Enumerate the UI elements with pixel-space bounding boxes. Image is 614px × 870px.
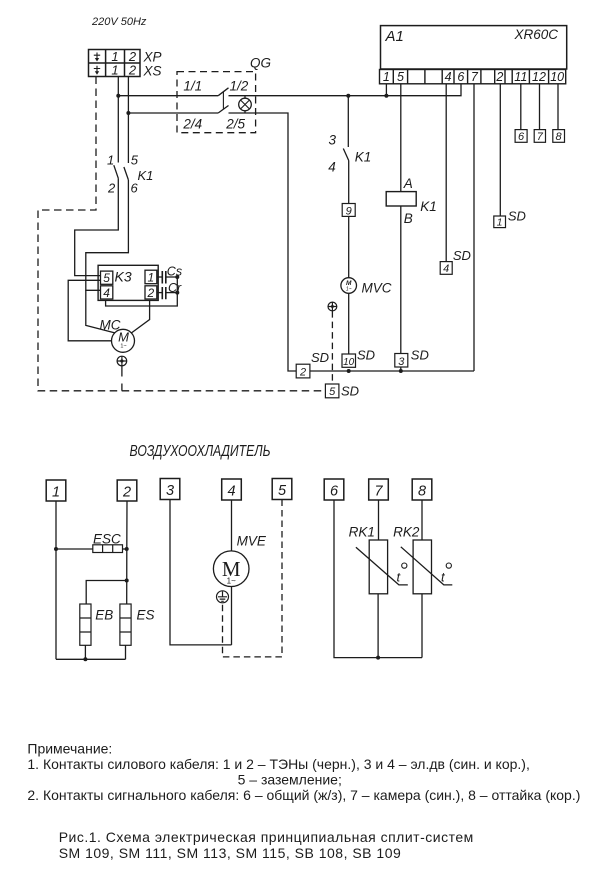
capacitor Cs: [157, 271, 178, 284]
node Cr junction: [175, 291, 179, 295]
svg-text:ES: ES: [137, 608, 155, 623]
thermistor RK1: [356, 540, 408, 594]
cable terminal 1: [46, 480, 66, 501]
label RK1: [349, 525, 375, 540]
label RK2: [393, 525, 420, 540]
label 4: [328, 160, 336, 175]
svg-text:SD: SD: [311, 350, 329, 365]
notes text block: [27, 741, 580, 804]
svg-text:7: 7: [374, 484, 383, 500]
label A: [403, 176, 413, 191]
thermistor RK2: [401, 540, 453, 594]
label 5 sd: [329, 386, 336, 398]
wire strip4 to square4: [445, 84, 447, 262]
cable terminal 7: [369, 479, 389, 500]
cable terminal 6: [324, 479, 344, 500]
svg-text:SD: SD: [508, 208, 526, 223]
label SD of square10: [357, 348, 375, 363]
switch QG dashed box: [177, 72, 256, 133]
earth symbol of MVE: [217, 591, 229, 603]
contact K1 3-4 blade: [343, 149, 348, 161]
wire strip1 down: [385, 84, 387, 96]
label 6: [131, 181, 139, 196]
label t of RK2: [441, 563, 451, 585]
wire branch into K3 pin4: [86, 290, 115, 333]
label A1: [385, 28, 404, 45]
label SD of square3: [411, 348, 429, 363]
relay K3 box: [98, 265, 158, 300]
contact K1 5-6 blade: [124, 167, 128, 180]
wire neutral top: [128, 112, 218, 114]
svg-text:4: 4: [227, 484, 235, 500]
svg-text:6: 6: [330, 484, 339, 500]
svg-text:A1: A1: [385, 28, 404, 45]
label 7: [374, 484, 383, 500]
label 2 k3: [147, 286, 155, 300]
svg-text:5: 5: [131, 153, 139, 168]
label B: [404, 211, 413, 226]
label 5: [278, 483, 287, 499]
svg-text:XP: XP: [143, 50, 162, 65]
label MVC: [362, 281, 392, 296]
label 4 k3: [103, 286, 110, 300]
terminal square 2: [296, 364, 310, 378]
label K1 aux contact: [355, 149, 372, 164]
wire XS pin2 down: [127, 77, 129, 164]
svg-text:1: 1: [107, 153, 114, 168]
relay coil K1: [386, 192, 416, 206]
label 3: [166, 483, 174, 499]
label 1/2: [230, 79, 249, 94]
terminal strip of A1: [380, 70, 566, 84]
label 3 sd: [398, 356, 405, 368]
wire strip10 to square8: [557, 84, 559, 130]
label K1 coil: [420, 199, 437, 214]
svg-text:5: 5: [103, 271, 110, 285]
svg-text:1: 1: [497, 217, 503, 229]
svg-text:4: 4: [445, 70, 452, 84]
svg-text:4: 4: [103, 286, 110, 300]
svg-text:220V 50Hz: 220V 50Hz: [91, 16, 147, 28]
label Cs: [167, 265, 182, 279]
svg-text:RK1: RK1: [349, 525, 375, 540]
XS pin labels 1 2: [111, 63, 137, 78]
label MVE: [237, 534, 267, 549]
dashed wire earth to square5: [331, 311, 333, 384]
svg-text:ВОЗДУХООХЛАДИТЕЛЬ: ВОЗДУХООХЛАДИТЕЛЬ: [130, 443, 271, 460]
wire MC earth to dashed ground: [121, 366, 123, 391]
svg-text:B: B: [404, 211, 413, 226]
wire contact2 to K3 pin4: [86, 180, 129, 290]
node L2 junction: [126, 111, 130, 115]
label SD of square2: [311, 350, 329, 365]
terminal square 5: [325, 384, 339, 398]
label 7 cable: [537, 131, 544, 143]
wire square9 to MVC: [348, 216, 350, 277]
terminal square 1: [494, 216, 506, 228]
switch QG pole1 blade: [218, 88, 228, 96]
wire strip2 to square1: [499, 84, 501, 216]
cable terminal 8: [412, 479, 432, 500]
svg-text:Cs: Cs: [167, 265, 182, 279]
K3 cell 4: [101, 286, 113, 299]
connector XP/XS block: [89, 50, 141, 77]
svg-text:SD: SD: [453, 248, 471, 263]
node EB bottom junction: [83, 657, 87, 661]
svg-text:2: 2: [128, 63, 137, 78]
wire square3 to bus: [400, 367, 402, 371]
wire EB bottom: [84, 645, 86, 659]
wire strip5 to coil: [400, 84, 402, 192]
label 2/4: [182, 116, 202, 131]
svg-text:5: 5: [329, 386, 336, 398]
svg-text:5 – заземление;: 5 – заземление;: [238, 771, 342, 787]
label 3: [329, 133, 337, 148]
node bus-MVC junction: [347, 369, 351, 373]
svg-text:4: 4: [328, 160, 336, 175]
controller A1 box: [381, 26, 567, 69]
label Cr: [168, 281, 182, 295]
label XP: [143, 50, 162, 65]
label 8 cable: [556, 131, 563, 143]
svg-text:K1: K1: [355, 149, 372, 164]
earth symbol of MC: [117, 356, 127, 366]
label t of RK1: [397, 563, 407, 585]
svg-text:1: 1: [383, 70, 390, 84]
svg-text:MVC: MVC: [362, 281, 392, 296]
switch QG pole2 blade: [218, 106, 228, 114]
svg-text:4: 4: [443, 263, 449, 275]
svg-text:MC: MC: [100, 318, 121, 333]
svg-text:6: 6: [457, 70, 464, 84]
svg-text:1. Контакты силового кабеля: 1: 1. Контакты силового кабеля: 1 и 2 – ТЭН…: [27, 756, 529, 772]
node L1 junction: [116, 94, 120, 98]
svg-text:2: 2: [122, 485, 131, 501]
wire strip11 to square6: [520, 84, 522, 130]
svg-text:2: 2: [495, 70, 503, 84]
earth symbol near MVC: [328, 302, 337, 311]
label QG: [250, 56, 271, 71]
cable terminal 3: [160, 479, 180, 500]
label 2: [122, 485, 131, 501]
label K1 contacts: [138, 168, 154, 183]
svg-text:t: t: [441, 570, 446, 585]
node EB branch junction: [125, 579, 129, 583]
label XR60C: [514, 27, 559, 42]
svg-text:1: 1: [148, 271, 155, 285]
svg-text:2: 2: [299, 367, 306, 379]
svg-text:3: 3: [398, 356, 405, 368]
node RK1 bottom junction: [376, 656, 380, 660]
terminal square 4: [440, 262, 452, 275]
label ESC: [93, 532, 121, 547]
cable terminal 2: [117, 480, 137, 501]
dashed ground wire from XP/XS: [38, 77, 325, 391]
svg-text:SD: SD: [341, 384, 359, 399]
thermal cutout ESC: [93, 545, 123, 553]
svg-text:1~: 1~: [346, 287, 352, 293]
wire RK1 bottom: [377, 594, 379, 658]
svg-text:3: 3: [166, 483, 174, 499]
svg-text:Примечание:: Примечание:: [27, 741, 112, 757]
svg-text:XS: XS: [143, 64, 162, 79]
svg-text:SM 109, SM 111, SM 113, SM 115: SM 109, SM 111, SM 113, SM 115, SB 108, …: [59, 845, 402, 861]
label XS: [143, 64, 162, 79]
label M of MVE: [222, 557, 241, 586]
terminal square 3: [395, 354, 408, 368]
svg-text:7: 7: [537, 131, 544, 143]
switch QG linkage: [222, 92, 224, 109]
svg-text:2. Контакты сигнального кабеля: 2. Контакты сигнального кабеля: 6 – общи…: [27, 787, 580, 803]
node K1coil branch junction: [346, 94, 350, 98]
svg-text:5: 5: [278, 483, 287, 499]
svg-text:XR60C: XR60C: [514, 27, 559, 42]
svg-text:1: 1: [52, 485, 60, 501]
node ESC left junction: [54, 547, 58, 551]
label 220V 50Hz: [91, 16, 147, 28]
heater EB: [80, 604, 91, 645]
label 1 sd: [497, 217, 503, 229]
contact K1 3-4 upper wire: [347, 96, 349, 147]
label M of MVC: [346, 280, 352, 293]
svg-text:2: 2: [147, 286, 155, 300]
svg-text:10: 10: [550, 70, 564, 84]
wire contact1 to K3 pin5: [75, 178, 119, 275]
wire terminal8 to RK2: [421, 500, 423, 540]
svg-text:9: 9: [346, 206, 352, 218]
svg-text:K1: K1: [420, 199, 437, 214]
svg-text:1: 1: [111, 63, 118, 78]
heater ES: [120, 604, 131, 645]
XP pin labels 1 2: [111, 49, 137, 64]
wire terminal1 down: [55, 501, 57, 659]
terminal square 8: [553, 130, 565, 143]
svg-text:1/1: 1/1: [183, 79, 202, 94]
node ESC right junction: [125, 547, 129, 551]
label 1: [107, 153, 114, 168]
svg-text:6: 6: [518, 131, 525, 143]
svg-text:ESC: ESC: [93, 532, 121, 547]
label 4 sd: [443, 263, 449, 275]
svg-text:Рис.1. Схема электрическая при: Рис.1. Схема электрическая принципиальна…: [59, 829, 474, 845]
svg-text:1/2: 1/2: [230, 79, 249, 94]
svg-text:K3: K3: [115, 269, 132, 285]
wire K3 pin5 to motor left: [68, 280, 111, 341]
label 6 cable: [518, 131, 525, 143]
terminal square 6: [515, 130, 527, 143]
node strip1 junction: [384, 94, 388, 98]
K3 cell 5: [101, 271, 113, 284]
wire coil to square3: [400, 206, 402, 354]
label 8: [418, 484, 426, 500]
label 5: [131, 153, 139, 168]
label 4: [227, 484, 235, 500]
motor MVC: [341, 278, 357, 294]
node Cs junction: [175, 275, 179, 279]
wire strip7 down to bus: [473, 84, 475, 371]
svg-text:RK2: RK2: [393, 525, 420, 540]
node bus-coil junction: [399, 369, 403, 373]
wire heater bottom bus: [56, 658, 126, 660]
capacitor Cr: [157, 287, 178, 299]
wire K3 pin2 to motor: [131, 300, 149, 333]
svg-text:3: 3: [329, 133, 337, 148]
svg-text:K1: K1: [138, 168, 154, 183]
wire MVE bottom: [231, 586, 233, 645]
title ВОЗДУХООХЛАДИТЕЛЬ: [130, 443, 271, 460]
terminal square 9: [342, 204, 355, 217]
svg-text:SD: SD: [411, 348, 429, 363]
label SD of square5: [341, 384, 359, 399]
wire caps to K3 pin4 bottom: [106, 277, 178, 306]
label SD of square4: [453, 248, 471, 263]
cable terminal 4: [222, 479, 242, 500]
label EB: [95, 608, 113, 623]
wire ESC left: [56, 548, 93, 550]
svg-text:12: 12: [532, 70, 546, 84]
terminal square 10: [342, 354, 356, 367]
svg-text:8: 8: [556, 131, 563, 143]
fan motor MVE: [213, 551, 249, 587]
label 5 k3: [103, 271, 110, 285]
label 2/5: [225, 116, 245, 131]
label M of MC: [118, 330, 129, 350]
svg-text:MVE: MVE: [237, 534, 267, 549]
label 1 k3: [148, 271, 155, 285]
label 1: [52, 485, 60, 501]
label 9: [346, 206, 352, 218]
label 2: [107, 181, 116, 196]
svg-text:2: 2: [107, 181, 116, 196]
terminal square 7: [534, 130, 545, 143]
label K3: [115, 269, 132, 285]
wire terminal2 down: [126, 501, 128, 604]
wire contact to square9: [348, 161, 350, 204]
wire terminal6 down: [334, 500, 422, 658]
contact K1 1-2 blade: [114, 165, 119, 178]
wire MVC to square10: [348, 293, 350, 354]
svg-text:7: 7: [471, 70, 479, 84]
svg-text:A: A: [403, 176, 413, 191]
wire terminal4 to MVE: [231, 500, 233, 551]
wire ES bottom: [125, 645, 127, 659]
strip pin numbers: [383, 70, 564, 84]
lamp HL in QG: [239, 96, 252, 113]
wire terminal7 to RK1: [378, 500, 380, 540]
svg-text:2/5: 2/5: [225, 116, 245, 131]
K3 cell 2: [145, 286, 157, 299]
svg-text:1~: 1~: [120, 344, 126, 350]
label SD of square1: [508, 208, 526, 223]
wire EB branch: [86, 581, 127, 605]
pin symbol XS ground: [94, 66, 100, 75]
svg-text:EB: EB: [95, 608, 113, 623]
wire XS pin1 down: [117, 77, 119, 163]
pin symbol XP ground: [94, 53, 100, 62]
wire strip12 to square7: [539, 84, 541, 130]
cable terminal 5: [272, 479, 292, 500]
svg-text:QG: QG: [250, 56, 271, 71]
label ES: [137, 608, 155, 623]
wire RK2 bottom: [421, 594, 423, 658]
svg-text:1~: 1~: [227, 577, 236, 586]
svg-text:8: 8: [418, 484, 426, 500]
label 6: [330, 484, 339, 500]
svg-text:Cr: Cr: [168, 281, 182, 295]
label 1/1: [183, 79, 202, 94]
wire terminal3 down: [170, 500, 232, 645]
svg-text:11: 11: [514, 70, 527, 84]
wire phase top: [118, 95, 218, 97]
dashed wire terminal5 to earth: [223, 500, 283, 657]
svg-text:2/4: 2/4: [182, 116, 202, 131]
wire phase top right: [229, 84, 462, 96]
wire ESC right: [123, 548, 127, 550]
motor MC: [112, 329, 135, 352]
signal bus wire: [310, 370, 474, 372]
figure caption: [59, 829, 474, 861]
label 2 sd: [299, 367, 306, 379]
svg-text:SD: SD: [357, 348, 375, 363]
K3 cell 1: [145, 270, 157, 284]
svg-text:t: t: [397, 570, 402, 585]
wire neutral right: [229, 113, 297, 371]
svg-text:5: 5: [397, 70, 404, 84]
label 10 sd: [343, 357, 355, 368]
label MC: [100, 318, 121, 333]
svg-text:10: 10: [343, 357, 355, 368]
